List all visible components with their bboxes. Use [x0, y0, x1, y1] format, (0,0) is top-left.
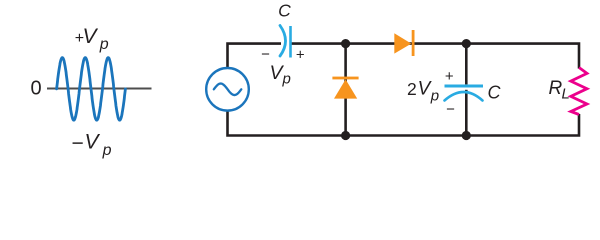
- svg-text:C: C: [278, 0, 291, 20]
- svg-text:R: R: [549, 78, 563, 99]
- svg-text:p: p: [282, 71, 291, 88]
- svg-text:L: L: [562, 86, 570, 103]
- svg-text:−: −: [72, 132, 84, 155]
- svg-text:−: −: [261, 46, 270, 63]
- wire: top rail from capacitor through junctions to right corner: [291, 44, 580, 69]
- svg-text:+: +: [296, 47, 305, 64]
- svg-text:+: +: [445, 68, 454, 85]
- resistor RL zigzag: [571, 68, 587, 115]
- wire: output capacitor branch upper: [465, 44, 468, 85]
- svg-text:V: V: [83, 25, 99, 48]
- junction node bottom-right: [462, 131, 471, 140]
- svg-text:0: 0: [30, 77, 41, 99]
- AC source sine glyph: [214, 84, 242, 96]
- junction node bottom-left: [341, 131, 350, 140]
- wire: top rail left segment (source to capacitor C): [228, 44, 282, 68]
- output capacitor C straight (top) plate: [445, 85, 484, 88]
- svg-text:p: p: [102, 142, 112, 159]
- capacitor C straight plate: [289, 26, 292, 58]
- wire: output capacitor branch lower: [465, 90, 468, 136]
- waveform sine: [57, 58, 126, 121]
- AC source U1 circle: [206, 68, 249, 111]
- diode D2 (series, horizontal) triangle: [394, 33, 411, 53]
- diode D1 (shunt, vertical) triangle: [334, 79, 357, 98]
- svg-text:p: p: [430, 87, 439, 104]
- wire: bottom rail: [228, 111, 580, 136]
- waveform axis line: [47, 88, 152, 90]
- svg-text:V: V: [85, 130, 101, 153]
- svg-text:2: 2: [407, 79, 417, 99]
- svg-text:C: C: [488, 83, 502, 103]
- svg-text:−: −: [446, 101, 455, 118]
- diode D1 cathode bar: [332, 77, 358, 80]
- junction node top-left: [341, 39, 350, 48]
- diode D2 cathode bar: [412, 30, 415, 56]
- svg-text:p: p: [99, 36, 109, 53]
- junction node top-right: [462, 39, 471, 48]
- output capacitor C curved (bottom) plate: [445, 92, 483, 101]
- capacitor C (series input cap) curved plate: [280, 26, 286, 57]
- wire: middle diode branch: [344, 44, 347, 136]
